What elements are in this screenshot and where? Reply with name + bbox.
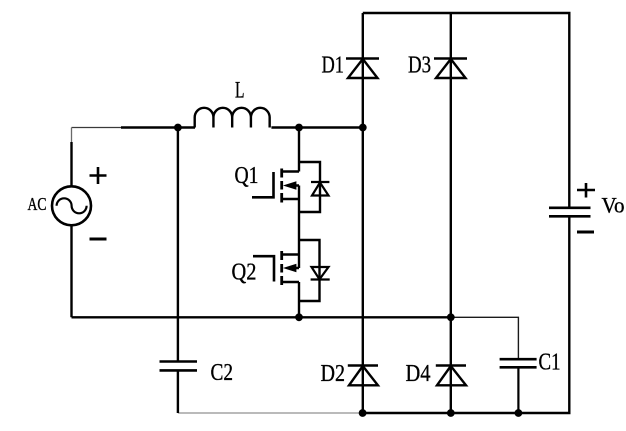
- svg-text:AC: AC: [28, 194, 47, 214]
- svg-text:D4: D4: [406, 360, 431, 387]
- svg-text:D3: D3: [408, 52, 431, 79]
- svg-text:D1: D1: [322, 52, 345, 79]
- svg-text:Vo: Vo: [602, 193, 625, 218]
- svg-text:Q1: Q1: [235, 162, 259, 189]
- svg-text:C2: C2: [211, 359, 234, 386]
- svg-text:Q2: Q2: [232, 259, 257, 286]
- svg-text:C1: C1: [539, 349, 561, 376]
- svg-text:D2: D2: [321, 360, 346, 387]
- svg-text:L: L: [235, 78, 245, 103]
